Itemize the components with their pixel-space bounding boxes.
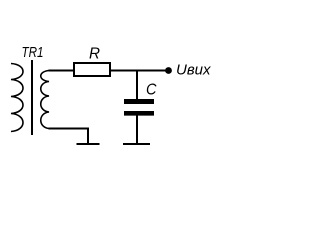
svg-text:R: R [89, 46, 100, 63]
wire resistor to output node [111, 70, 168, 72]
wire secondary bottom lead to ground [49, 129, 89, 145]
transformer TR1 core [31, 60, 33, 135]
svg-text:C: C [146, 81, 157, 98]
wire junction down to capacitor C [136, 71, 138, 100]
ground right [123, 143, 150, 145]
capacitor C top plate [124, 99, 154, 104]
svg-text:Uвих: Uвих [176, 62, 211, 79]
output node dot [165, 67, 172, 74]
transformer TR1 secondary winding [41, 71, 49, 129]
ground left [77, 143, 100, 145]
wire secondary top lead to resistor R [49, 70, 74, 72]
svg-text:TR1: TR1 [22, 44, 44, 61]
transformer TR1 primary winding [11, 64, 23, 132]
capacitor C bottom plate [124, 111, 154, 116]
wire capacitor to ground [136, 116, 138, 145]
resistor R [74, 63, 110, 76]
